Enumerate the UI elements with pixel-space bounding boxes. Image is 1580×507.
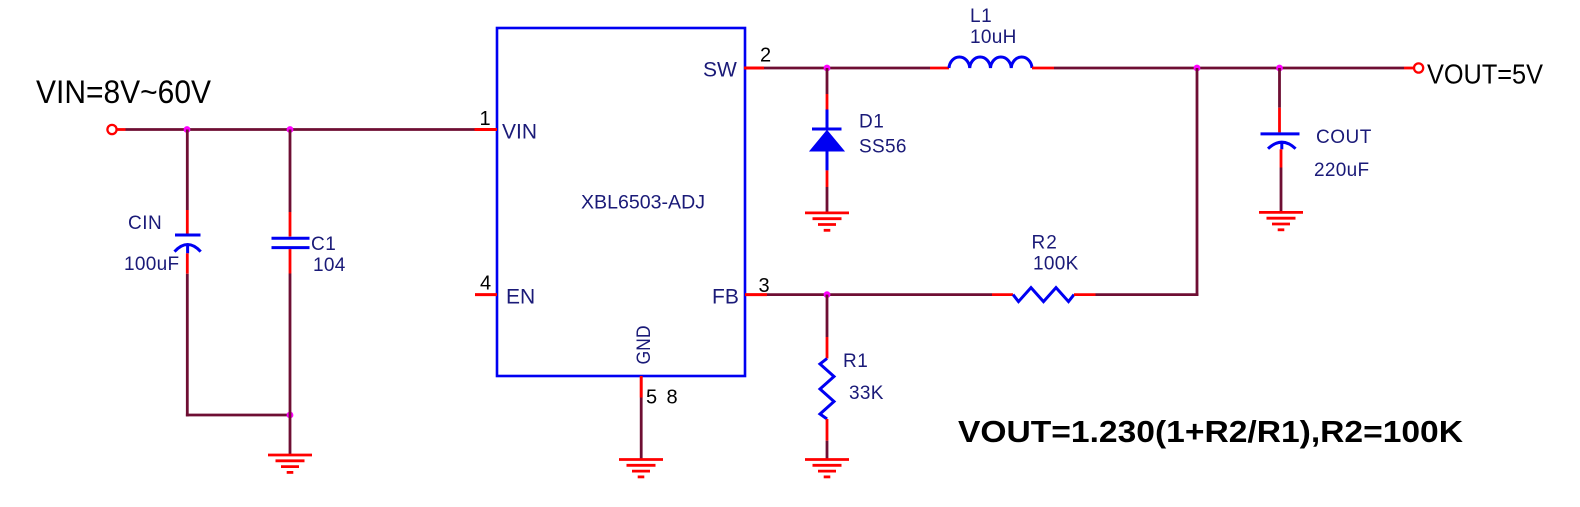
capacitor CIN (175, 235, 201, 253)
wire R2 left lead (992, 293, 1013, 296)
wire COUT top lead (1278, 68, 1281, 132)
svg-text:R1: R1 (843, 351, 868, 372)
node VOUT output terminal (1414, 63, 1423, 72)
ground IC GND (619, 460, 663, 477)
svg-text:VOUT=1.230(1+R2/R1),R2=100K: VOUT=1.230(1+R2/R1),R2=100K (958, 414, 1464, 449)
wire R2 right lead (1074, 293, 1198, 296)
wire CIN top lead (186, 130, 189, 234)
resistor R2 (1013, 288, 1074, 302)
node junction feedback tap (1194, 65, 1201, 72)
svg-text:SS56: SS56 (859, 137, 907, 158)
capacitor COUT (1261, 134, 1300, 149)
wire SW to L1 (764, 67, 949, 70)
pin GND stub (640, 376, 643, 398)
svg-text:C1: C1 (311, 234, 336, 255)
wire COUT bottom lead (1280, 149, 1283, 213)
wire L1 to output (1032, 67, 1414, 70)
svg-text:8: 8 (667, 387, 678, 409)
svg-text:XBL6503-ADJ: XBL6503-ADJ (581, 192, 705, 214)
svg-text:R2: R2 (1032, 233, 1058, 254)
wire FB rail (767, 293, 992, 296)
pin numbers 5 8 (646, 387, 678, 409)
node junction SW-D1 (824, 65, 831, 72)
wire CIN bottom lead (186, 253, 189, 416)
svg-text:CIN: CIN (128, 213, 162, 234)
node junction ground bus (287, 412, 294, 419)
svg-text:FB: FB (712, 286, 739, 309)
pin 2 SW stub (744, 67, 764, 70)
wire C1 top lead (289, 130, 292, 237)
inductor L1 (949, 57, 1032, 68)
ground COUT (1259, 212, 1303, 229)
svg-text:4: 4 (480, 273, 491, 295)
svg-text:VIN: VIN (502, 121, 537, 144)
wire VIN rail (126, 128, 475, 131)
svg-text:D1: D1 (859, 112, 884, 133)
svg-text:GND: GND (633, 326, 655, 365)
svg-text:VOUT=5V: VOUT=5V (1427, 59, 1543, 90)
svg-text:VIN=8V~60V: VIN=8V~60V (36, 74, 212, 110)
ground D1 (805, 213, 849, 230)
ground R1 (805, 460, 849, 477)
wire R1 bottom lead (826, 419, 829, 460)
svg-text:33K: 33K (849, 383, 884, 404)
wire GND pin to ground (640, 398, 643, 461)
wire ground bus CIN to C1 (186, 414, 290, 417)
svg-text:L1: L1 (970, 6, 992, 27)
pin 3 FB stub (745, 293, 767, 296)
svg-text:104: 104 (313, 255, 346, 276)
svg-text:100uF: 100uF (124, 254, 179, 275)
wire C1 bottom lead (289, 249, 292, 456)
pin 1 VIN stub (475, 128, 498, 131)
svg-text:SW: SW (703, 59, 737, 82)
svg-text:COUT: COUT (1316, 127, 1372, 148)
resistor R1 (820, 359, 834, 420)
svg-text:1: 1 (480, 108, 491, 130)
node junction C1 (287, 126, 294, 133)
svg-text:2: 2 (760, 45, 771, 67)
svg-text:100K: 100K (1033, 254, 1079, 275)
node junction CIN (184, 126, 191, 133)
wire R1 top lead (826, 295, 829, 359)
op-amp U1 XBL6503-ADJ body (497, 28, 745, 376)
wire D1 top lead (826, 68, 829, 129)
node junction COUT (1276, 65, 1283, 72)
node junction FB-R1 (824, 291, 831, 298)
pin 4 EN stub (475, 293, 497, 296)
ground input caps (268, 455, 312, 472)
node VIN input terminal (107, 125, 125, 134)
capacitor C1 (272, 238, 310, 247)
svg-text:5: 5 (646, 387, 657, 409)
svg-text:220uF: 220uF (1314, 160, 1369, 181)
diode D1 (810, 129, 844, 151)
wire feedback vertical (1196, 68, 1199, 296)
svg-text:10uH: 10uH (970, 27, 1017, 48)
wire D1 bottom lead (826, 151, 829, 214)
svg-text:EN: EN (506, 286, 535, 309)
